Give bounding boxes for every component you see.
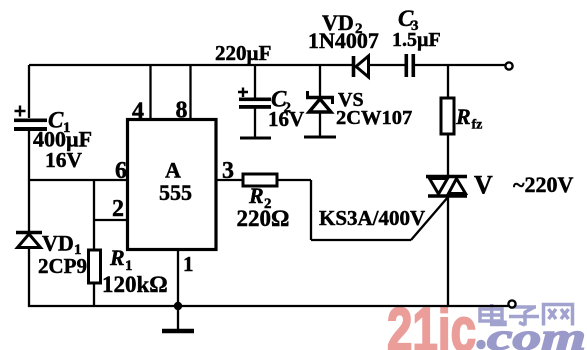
svg-text:6: 6 [115, 158, 127, 184]
svg-text:1N4007: 1N4007 [308, 28, 379, 53]
svg-text:16V: 16V [268, 107, 304, 131]
svg-text:A: A [165, 158, 181, 183]
svg-text:2: 2 [112, 196, 124, 222]
svg-text:1.5µF: 1.5µF [392, 29, 441, 51]
svg-text:120kΩ: 120kΩ [102, 272, 168, 297]
svg-text:~220V: ~220V [513, 172, 573, 197]
svg-text:16V: 16V [45, 148, 83, 172]
svg-text:KS3A/400V: KS3A/400V [319, 206, 425, 230]
svg-text:VD: VD [42, 231, 74, 256]
svg-text:R: R [455, 104, 471, 129]
svg-text:4: 4 [132, 99, 144, 125]
svg-text:2CP9: 2CP9 [38, 254, 87, 278]
svg-text:8: 8 [176, 98, 188, 124]
svg-text:220µF: 220µF [215, 41, 271, 65]
svg-text:R: R [109, 245, 125, 270]
svg-text:555: 555 [159, 180, 192, 205]
svg-text:1: 1 [183, 252, 194, 276]
svg-text:3: 3 [222, 158, 234, 184]
svg-text:R: R [248, 183, 264, 208]
svg-text:220Ω: 220Ω [237, 206, 290, 231]
svg-text:V: V [474, 171, 493, 200]
svg-text:fz: fz [472, 118, 483, 133]
svg-text:2CW107: 2CW107 [336, 107, 412, 129]
svg-text:21ic: 21ic [387, 296, 476, 350]
